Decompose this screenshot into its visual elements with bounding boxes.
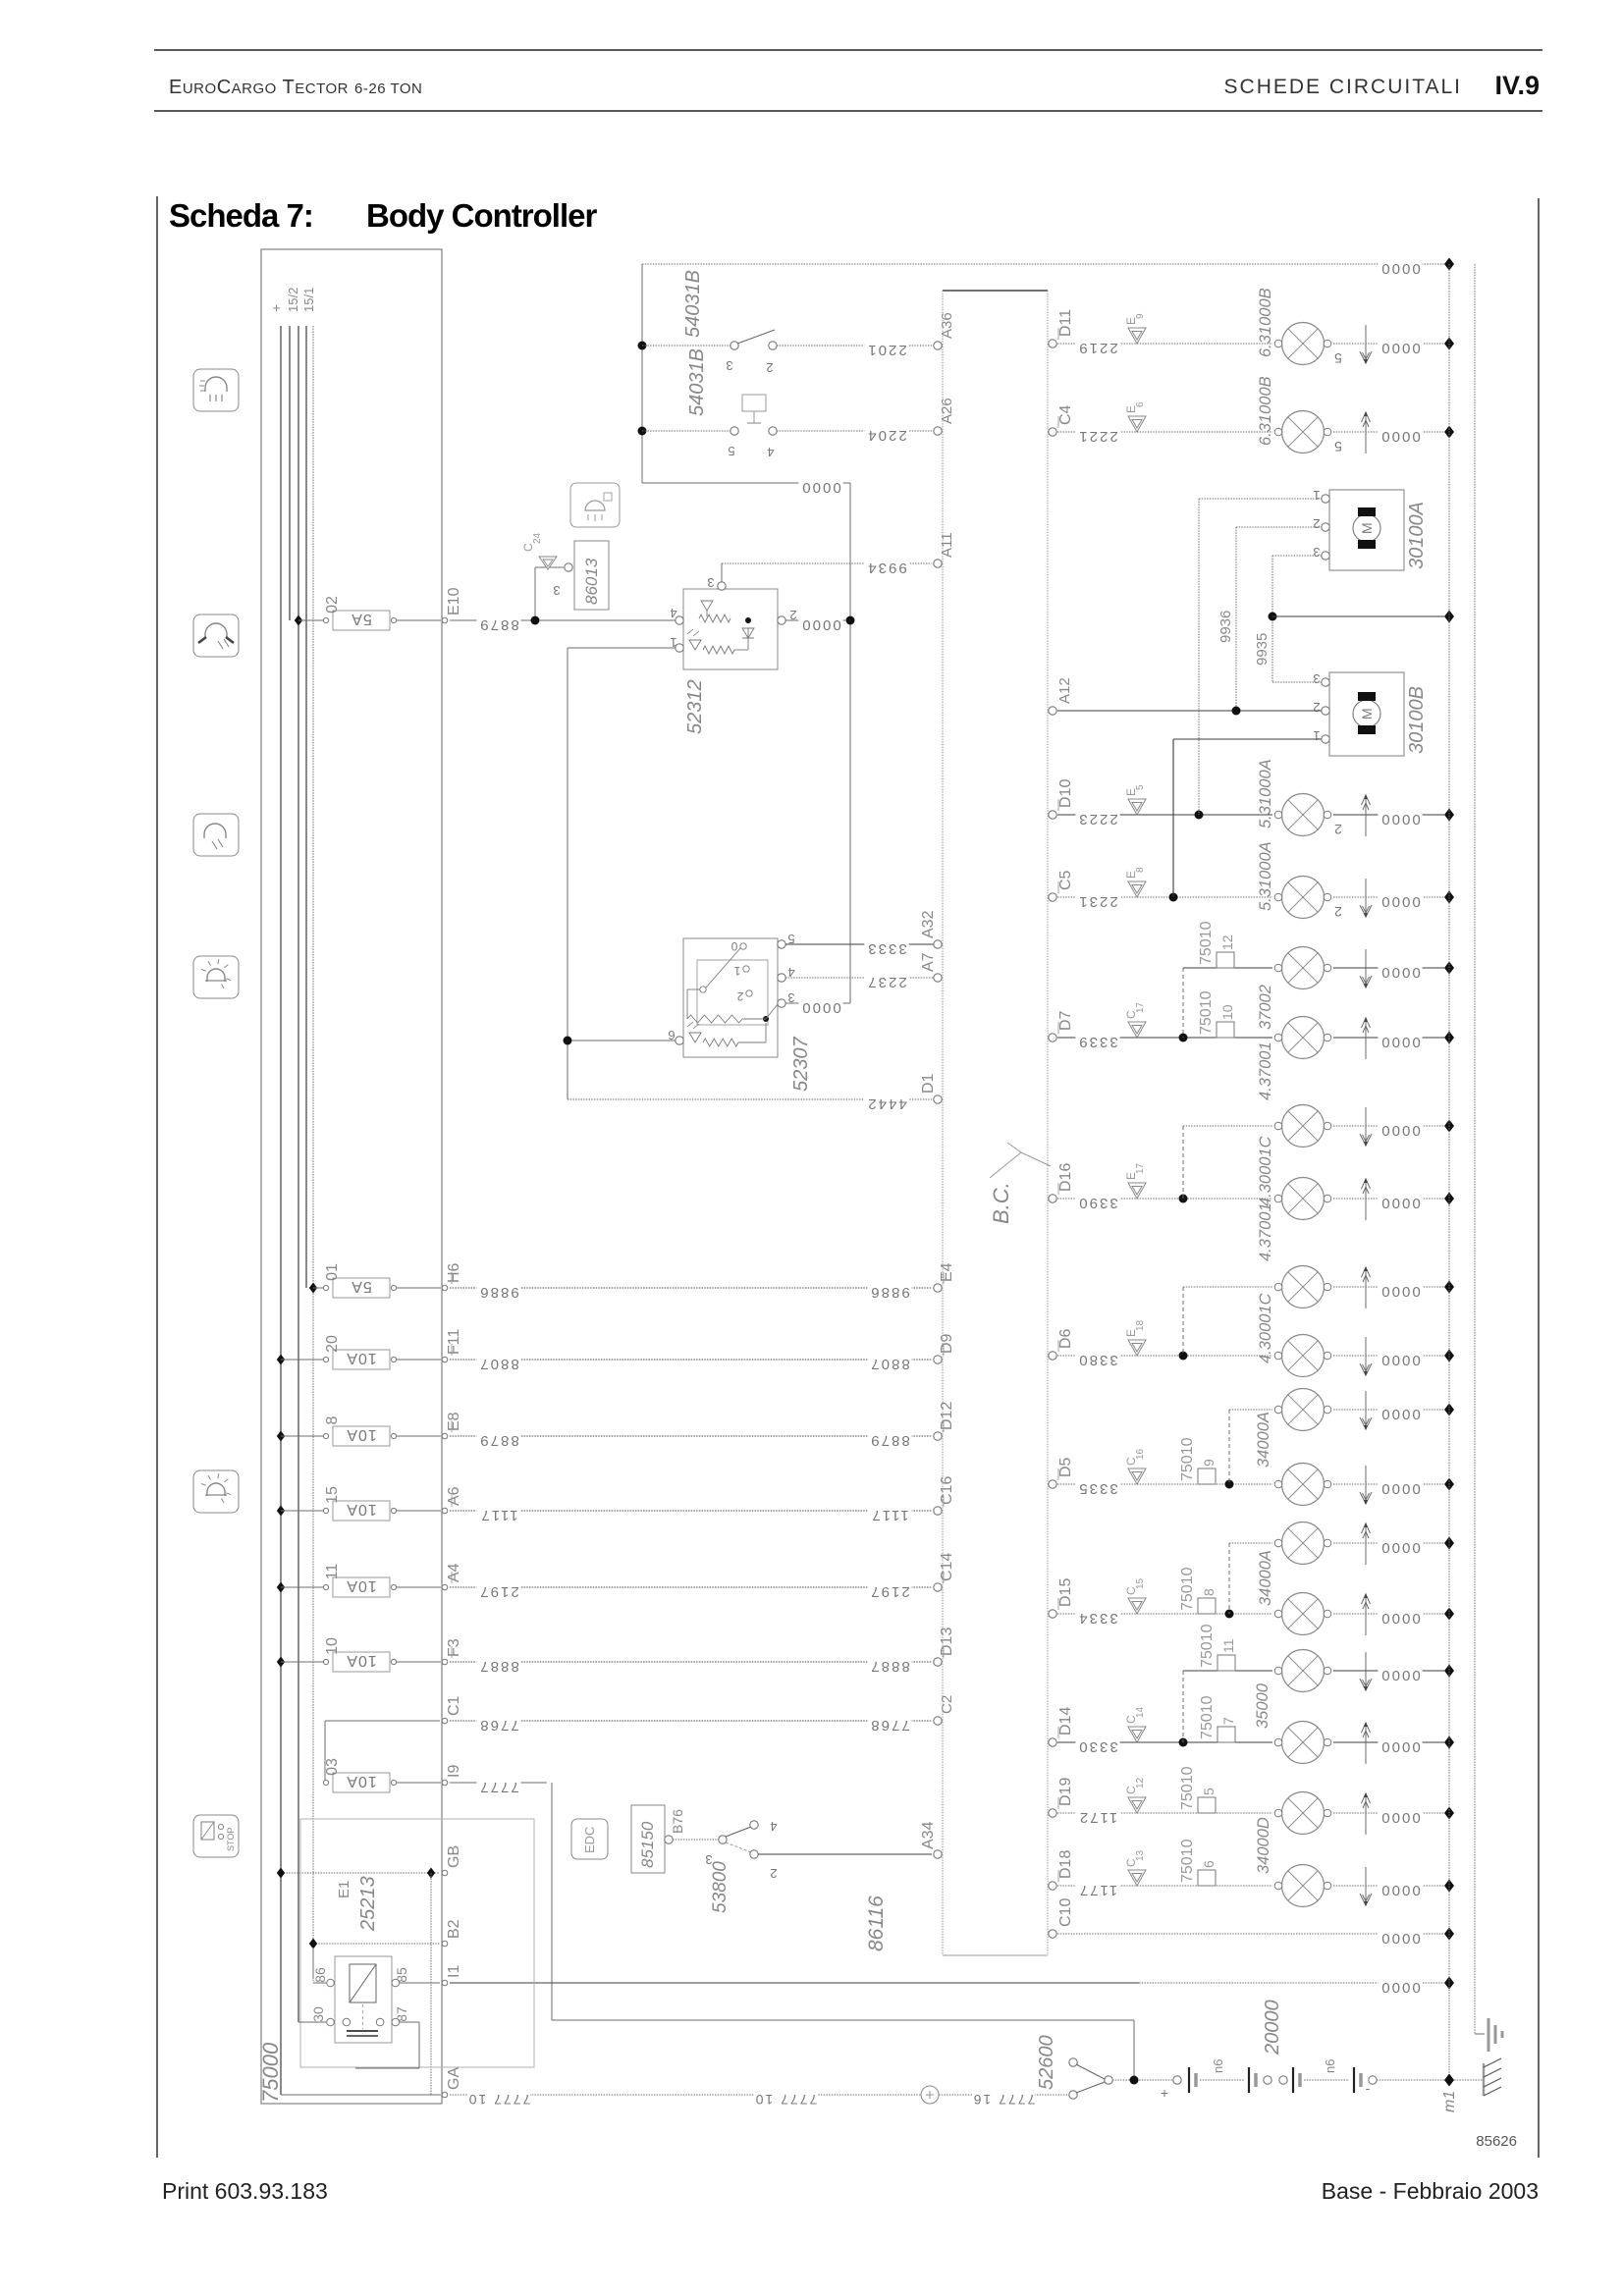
svg-text:24: 24 (532, 532, 543, 544)
svg-text:Scheda 7:: Scheda 7: (169, 197, 313, 234)
svg-text:3: 3 (553, 583, 560, 598)
svg-text:85150: 85150 (638, 1821, 657, 1868)
svg-text:52312: 52312 (684, 679, 706, 734)
svg-text:A36: A36 (939, 312, 955, 339)
svg-text:1117: 1117 (870, 1507, 908, 1523)
svg-text:20: 20 (324, 1335, 341, 1353)
svg-text:86: 86 (312, 1967, 328, 1983)
svg-text:F3: F3 (446, 1638, 462, 1657)
svg-text:85: 85 (394, 1967, 409, 1983)
svg-text:3339: 3339 (1077, 1034, 1117, 1050)
svg-text:0000: 0000 (1380, 1283, 1420, 1300)
svg-text:E1: E1 (336, 1881, 352, 1898)
svg-text:F11: F11 (446, 1329, 462, 1355)
svg-text:D1: D1 (920, 1073, 937, 1094)
svg-text:C1: C1 (446, 1695, 462, 1716)
svg-text:8879: 8879 (478, 616, 518, 633)
svg-text:8807: 8807 (478, 1356, 518, 1372)
svg-text:75010: 75010 (1199, 1624, 1216, 1668)
svg-text:0000: 0000 (1380, 1539, 1420, 1556)
svg-text:0000: 0000 (1380, 1738, 1420, 1755)
svg-text:3330: 3330 (1077, 1738, 1117, 1755)
svg-text:D5: D5 (1057, 1457, 1074, 1477)
svg-text:A26: A26 (939, 398, 955, 424)
svg-text:D18: D18 (1057, 1850, 1074, 1879)
svg-text:16: 16 (1135, 1448, 1146, 1460)
svg-text:8887: 8887 (478, 1658, 518, 1675)
svg-text:I1: I1 (446, 1965, 462, 1978)
svg-text:75010: 75010 (1179, 1766, 1196, 1810)
svg-text:C2: C2 (939, 1695, 955, 1714)
svg-text:3334: 3334 (1077, 1610, 1117, 1627)
svg-text:7777: 7777 (478, 1779, 518, 1795)
svg-text:A6: A6 (446, 1486, 462, 1506)
svg-text:7768: 7768 (478, 1717, 518, 1734)
svg-text:75010: 75010 (1179, 1437, 1196, 1481)
svg-text:D15: D15 (1057, 1578, 1074, 1607)
svg-text:9936: 9936 (1217, 611, 1234, 643)
svg-text:GB: GB (446, 1845, 462, 1868)
svg-text:10A: 10A (346, 1652, 376, 1669)
svg-text:2197: 2197 (869, 1583, 909, 1600)
svg-text:5: 5 (1334, 439, 1342, 454)
svg-text:D19: D19 (1057, 1778, 1074, 1806)
svg-text:4.37001: 4.37001 (1257, 1202, 1274, 1261)
svg-text:C5: C5 (1057, 870, 1074, 890)
svg-text:18: 18 (1135, 1319, 1146, 1331)
svg-text:GA: GA (446, 2067, 462, 2090)
svg-text:6: 6 (1135, 401, 1146, 407)
svg-text:0000: 0000 (1380, 1406, 1420, 1422)
svg-text:0000: 0000 (1380, 1480, 1420, 1497)
svg-text:25213: 25213 (357, 1876, 379, 1932)
svg-text:0000: 0000 (1380, 340, 1420, 356)
svg-text:D10: D10 (1057, 779, 1074, 808)
svg-text:D6: D6 (1057, 1328, 1074, 1349)
svg-text:2204: 2204 (866, 427, 906, 444)
svg-text:2: 2 (1334, 822, 1342, 837)
svg-text:15/2: 15/2 (286, 288, 300, 312)
svg-text:3: 3 (726, 358, 732, 373)
svg-text:8879: 8879 (869, 1432, 909, 1449)
svg-text:0000: 0000 (1380, 1882, 1420, 1898)
svg-text:0000: 0000 (1380, 1034, 1420, 1050)
svg-text:4.37001: 4.37001 (1257, 1041, 1274, 1100)
svg-text:A12: A12 (1056, 677, 1073, 704)
svg-text:STOP: STOP (226, 1828, 236, 1851)
svg-text:0000: 0000 (1380, 1979, 1420, 1996)
svg-text:E4: E4 (939, 1262, 955, 1282)
svg-text:0000: 0000 (1380, 1809, 1420, 1826)
svg-text:7777 10: 7777 10 (467, 2092, 531, 2108)
svg-text:A7: A7 (920, 952, 937, 972)
svg-text:A34: A34 (920, 1821, 937, 1849)
svg-text:2221: 2221 (1077, 428, 1117, 445)
svg-text:34000A: 34000A (1257, 1550, 1274, 1606)
svg-text:2219: 2219 (1077, 340, 1117, 356)
svg-text:1: 1 (733, 964, 740, 978)
svg-text:2201: 2201 (866, 342, 906, 358)
svg-text:+: + (1161, 2085, 1168, 2101)
svg-text:Base - Febbraio 2003: Base - Febbraio 2003 (1322, 2178, 1539, 2204)
svg-text:0000: 0000 (1380, 428, 1420, 445)
svg-text:EDC: EDC (582, 1827, 597, 1853)
svg-text:2: 2 (766, 360, 773, 375)
svg-text:3333: 3333 (866, 940, 906, 957)
svg-text:15: 15 (324, 1486, 341, 1504)
svg-text:52600: 52600 (1036, 2035, 1057, 2090)
svg-text:34000D: 34000D (1255, 1817, 1272, 1874)
svg-text:75010: 75010 (1179, 1839, 1196, 1883)
svg-text:7777 10: 7777 10 (754, 2092, 818, 2108)
svg-text:14: 14 (1135, 1706, 1146, 1718)
svg-text:0000: 0000 (800, 479, 840, 496)
svg-text:0000: 0000 (1380, 893, 1420, 910)
svg-text:I9: I9 (446, 1765, 462, 1778)
svg-text:0000: 0000 (1380, 964, 1420, 981)
svg-text:1: 1 (1313, 488, 1320, 503)
svg-text:8: 8 (1135, 867, 1146, 873)
svg-text:M: M (1359, 522, 1375, 534)
svg-text:2: 2 (1334, 904, 1342, 920)
svg-text:9886: 9886 (478, 1284, 518, 1301)
svg-text:75000: 75000 (258, 2042, 283, 2103)
svg-text:A4: A4 (446, 1563, 462, 1582)
svg-text:10A: 10A (346, 1501, 376, 1518)
svg-text:54031B: 54031B (682, 270, 704, 338)
svg-text:02: 02 (324, 596, 341, 614)
svg-text:IV.9: IV.9 (1494, 71, 1540, 100)
svg-text:10A: 10A (346, 1350, 376, 1366)
svg-text:0000: 0000 (1380, 1352, 1420, 1368)
svg-text:4.30001C: 4.30001C (1257, 1136, 1274, 1206)
svg-text:A11: A11 (939, 532, 955, 558)
svg-text:1172: 1172 (1078, 1809, 1117, 1826)
svg-text:75010: 75010 (1199, 1695, 1216, 1739)
svg-text:C14: C14 (939, 1553, 955, 1581)
svg-text:10A: 10A (346, 1773, 376, 1789)
svg-text:9: 9 (1135, 313, 1146, 319)
svg-text:75010: 75010 (1179, 1567, 1196, 1611)
svg-text:0: 0 (730, 939, 737, 953)
svg-text:4: 4 (770, 1819, 777, 1834)
svg-text:-: - (1366, 2080, 1371, 2096)
svg-text:2: 2 (770, 1866, 777, 1881)
svg-text:2: 2 (1313, 700, 1320, 715)
svg-text:2: 2 (1313, 516, 1320, 531)
svg-text:7: 7 (1220, 1717, 1236, 1725)
svg-text:8887: 8887 (869, 1658, 909, 1675)
svg-text:3390: 3390 (1077, 1195, 1117, 1211)
svg-text:11: 11 (1220, 1638, 1236, 1653)
svg-text:3: 3 (1313, 671, 1320, 686)
svg-text:2231: 2231 (1077, 893, 1117, 910)
svg-text:5A: 5A (351, 611, 372, 627)
svg-text:10A: 10A (346, 1426, 376, 1443)
svg-text:87: 87 (394, 2006, 409, 2022)
svg-text:20000: 20000 (1262, 2000, 1283, 2056)
svg-text:3335: 3335 (1077, 1480, 1117, 1497)
svg-text:8807: 8807 (869, 1356, 909, 1372)
svg-text:86013: 86013 (582, 558, 601, 605)
svg-text:D16: D16 (1057, 1163, 1074, 1192)
svg-text:0000: 0000 (1380, 1667, 1420, 1683)
svg-text:0000: 0000 (1380, 1195, 1420, 1211)
svg-text:53800: 53800 (710, 1861, 730, 1913)
svg-text:34000A: 34000A (1255, 1412, 1272, 1468)
svg-text:C10: C10 (1057, 1898, 1074, 1927)
svg-text:12: 12 (1219, 934, 1235, 950)
svg-text:SCHEDE CIRCUITALI: SCHEDE CIRCUITALI (1224, 76, 1462, 98)
svg-text:9886: 9886 (869, 1284, 909, 1301)
svg-text:5.31000A: 5.31000A (1257, 841, 1274, 911)
svg-text:03: 03 (324, 1758, 341, 1776)
svg-text:5.31000A: 5.31000A (1257, 759, 1274, 828)
svg-text:4: 4 (767, 445, 774, 459)
svg-text:2197: 2197 (478, 1583, 518, 1600)
svg-text:35000: 35000 (1254, 1682, 1271, 1729)
svg-text:30: 30 (310, 2006, 326, 2022)
svg-text:86116: 86116 (865, 1896, 888, 1951)
svg-text:2223: 2223 (1077, 811, 1117, 828)
svg-text:D11: D11 (1057, 309, 1074, 337)
svg-text:1117: 1117 (479, 1507, 517, 1523)
svg-text:10: 10 (324, 1637, 341, 1655)
svg-text:H6: H6 (446, 1262, 462, 1283)
svg-text:5: 5 (1334, 350, 1342, 366)
svg-text:4: 4 (670, 606, 676, 620)
svg-text:37002: 37002 (1257, 985, 1274, 1030)
svg-text:0000: 0000 (800, 999, 840, 1016)
svg-text:+: + (268, 304, 284, 312)
svg-text:6.31000B: 6.31000B (1257, 288, 1274, 357)
svg-text:8: 8 (1201, 1588, 1217, 1596)
svg-text:M: M (1359, 708, 1375, 720)
svg-text:5A: 5A (351, 1278, 372, 1295)
svg-text:C4: C4 (1057, 404, 1074, 425)
svg-text:11: 11 (324, 1564, 341, 1580)
svg-text:13: 13 (1135, 1849, 1146, 1861)
svg-text:0000: 0000 (1380, 1930, 1420, 1947)
svg-text:B76: B76 (670, 1809, 685, 1834)
svg-text:17: 17 (1135, 1162, 1146, 1174)
svg-text:5: 5 (728, 444, 734, 458)
svg-text:5: 5 (1201, 1788, 1217, 1795)
svg-text:3: 3 (707, 575, 714, 590)
svg-text:0000: 0000 (800, 616, 840, 633)
svg-text:A32: A32 (920, 910, 937, 938)
svg-text:Print 603.93.183: Print 603.93.183 (162, 2178, 328, 2204)
svg-text:4442: 4442 (866, 1095, 906, 1112)
svg-text:7768: 7768 (869, 1717, 909, 1734)
svg-text:85626: 85626 (1476, 2133, 1517, 2150)
svg-text:4.30001C: 4.30001C (1257, 1293, 1274, 1363)
svg-text:E10: E10 (446, 587, 462, 615)
svg-text:2: 2 (736, 989, 743, 1003)
svg-text:0000: 0000 (1380, 1610, 1420, 1627)
svg-text:30100A: 30100A (1406, 502, 1428, 569)
svg-text:E8: E8 (446, 1412, 462, 1431)
svg-text:15: 15 (1135, 1577, 1146, 1589)
svg-text:8: 8 (324, 1415, 341, 1424)
svg-text:54031B: 54031B (686, 348, 708, 416)
svg-text:30100B: 30100B (1406, 686, 1428, 754)
svg-text:D14: D14 (1057, 1707, 1074, 1735)
svg-text:Body Controller: Body Controller (366, 197, 597, 234)
svg-text:n6: n6 (1323, 2059, 1337, 2073)
svg-text:01: 01 (324, 1263, 341, 1281)
svg-text:D7: D7 (1057, 1010, 1074, 1031)
svg-text:75010: 75010 (1198, 921, 1215, 965)
svg-text:D12: D12 (939, 1402, 955, 1430)
svg-text:17: 17 (1135, 1001, 1146, 1013)
svg-text:8879: 8879 (478, 1432, 518, 1449)
svg-text:2237: 2237 (866, 974, 906, 990)
svg-text:9935: 9935 (1254, 633, 1271, 666)
svg-text:D13: D13 (939, 1628, 955, 1656)
svg-text:75010: 75010 (1198, 990, 1215, 1035)
svg-text:C16: C16 (939, 1476, 955, 1505)
svg-text:EUROCARGO TECTOR 6-26 TON: EUROCARGO TECTOR 6-26 TON (169, 77, 422, 98)
svg-text:1: 1 (1313, 728, 1320, 743)
svg-text:10A: 10A (346, 1577, 376, 1594)
svg-text:3: 3 (1313, 545, 1320, 560)
svg-text:52307: 52307 (790, 1037, 812, 1092)
svg-text:5: 5 (1135, 784, 1146, 790)
svg-text:0000: 0000 (1380, 811, 1420, 828)
svg-text:n6: n6 (1211, 2059, 1225, 2073)
svg-text:15/1: 15/1 (301, 288, 316, 312)
svg-text:7777 16: 7777 16 (972, 2092, 1036, 2108)
svg-text:1177: 1177 (1078, 1882, 1117, 1898)
svg-text:6: 6 (1201, 1860, 1217, 1868)
svg-text:B.C.: B.C. (989, 1182, 1013, 1224)
svg-text:D9: D9 (939, 1333, 955, 1354)
svg-text:0000: 0000 (1380, 1122, 1420, 1139)
svg-text:m1: m1 (1441, 2091, 1458, 2112)
svg-text:0000: 0000 (1380, 260, 1420, 277)
svg-text:B2: B2 (446, 1919, 462, 1939)
svg-text:6.31000B: 6.31000B (1257, 376, 1274, 446)
svg-text:10: 10 (1219, 1004, 1235, 1020)
svg-text:9: 9 (1201, 1459, 1217, 1467)
svg-text:3380: 3380 (1077, 1352, 1117, 1368)
svg-text:12: 12 (1135, 1777, 1146, 1789)
svg-text:9934: 9934 (866, 560, 906, 576)
